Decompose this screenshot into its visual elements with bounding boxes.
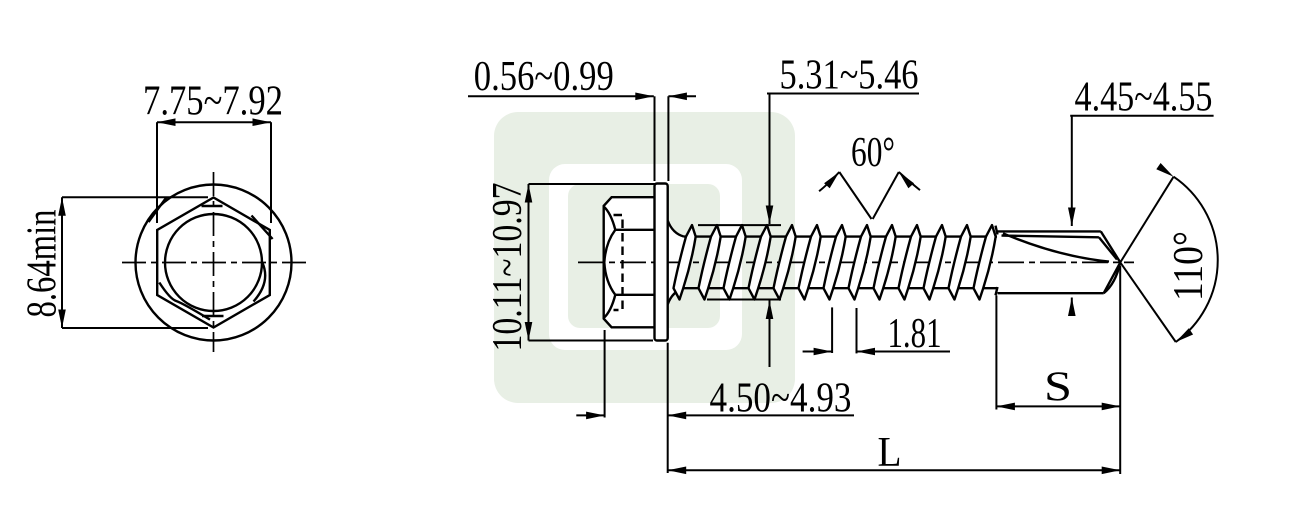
- dim 8.64min dimension line: [61, 197, 63, 328]
- end view: top vertex chamfer line: [202, 205, 223, 207]
- svg-text:10.11~10.97: 10.11~10.97: [485, 183, 531, 352]
- dim 60deg right arc hook: [899, 172, 920, 190]
- svg-text:8.64min: 8.64min: [20, 210, 66, 318]
- head side outline: [604, 197, 655, 327]
- svg-text:60°: 60°: [851, 130, 895, 176]
- head front facet arc lower: [604, 262, 615, 294]
- thread runout bottom: [996, 287, 998, 295]
- dim 7.75~7.92 dimension line: [157, 121, 271, 123]
- dim 110deg legs: [1120, 177, 1173, 263]
- major dia tangent line top: [698, 224, 781, 226]
- thread blades: [674, 225, 696, 299]
- dim 5.31~5.46 underline + leader: [767, 93, 919, 95]
- indent hidden outline (dashed): [614, 215, 623, 310]
- dim 7.75~7.92 extension line right: [270, 122, 272, 223]
- end view: hexagon: [157, 198, 270, 328]
- dim 4.50~4.93 right outside arrow + underline: [668, 414, 854, 416]
- watermark logo: pale green rounded square: [494, 112, 795, 403]
- shared extension line (flange face): [667, 343, 669, 473]
- svg-text:0.56~0.99: 0.56~0.99: [474, 54, 614, 100]
- dim 1.81 extension lines: [831, 307, 833, 353]
- point cone lower edge: [1104, 262, 1121, 293]
- dim 60deg right flank leg: [873, 172, 899, 219]
- dim 10.11~10.97 dimension line: [528, 184, 530, 341]
- head corner chamfer curve bottom: [604, 295, 616, 318]
- pilot top edge: [997, 230, 1101, 232]
- svg-text:S: S: [1044, 365, 1072, 411]
- head corner chamfer curve top: [604, 207, 616, 230]
- head facet line lower: [615, 294, 654, 296]
- end view: centerline horizontal: [122, 262, 306, 264]
- dim 10.11~10.97 extension lines: [529, 183, 656, 185]
- neck fillet bottom: [668, 288, 684, 304]
- dim 0.56~0.99 extension lines: [654, 96, 656, 181]
- thread runout top: [996, 226, 998, 235]
- end view: inner indent circle: [165, 214, 262, 311]
- end view: chamfer arc upper-left: [149, 197, 167, 222]
- point lower flute curve: [1104, 262, 1121, 293]
- washer flange: [655, 184, 668, 341]
- head front facet arc upper: [604, 230, 615, 263]
- head facet line upper: [615, 229, 654, 231]
- end view: chamfer arc upper-right: [252, 216, 273, 240]
- point cone upper inner edge: [1099, 237, 1117, 259]
- svg-text:110°: 110°: [1166, 231, 1212, 301]
- major dia tangent line bottom: [707, 299, 781, 301]
- dim 1.81 left arrow: [803, 351, 833, 353]
- dim 8.64min extension line top: [62, 196, 208, 198]
- white fill: head silhouette: [604, 197, 655, 327]
- dim 0.56~0.99 right arrow: [668, 95, 696, 97]
- thread root line top: [684, 235, 997, 237]
- dim 7.75~7.92 extension line left: [156, 122, 158, 223]
- dim 0.56~0.99 dimension line w/ left arrow: [468, 95, 654, 97]
- side view: centerline: [578, 261, 1134, 263]
- dim L dimension line: [668, 469, 1120, 471]
- watermark logo: white ring frame: [549, 164, 742, 350]
- end view: chamfer arc lower-right: [254, 263, 266, 302]
- svg-text:7.75~7.92: 7.75~7.92: [143, 79, 283, 125]
- dim 5.31~5.46 lower leader: [769, 301, 771, 368]
- end view: outer washer circle: [136, 185, 292, 341]
- svg-text:4.45~4.55: 4.45~4.55: [1075, 75, 1213, 121]
- dim 4.45~4.55 underline + leader: [1070, 115, 1213, 117]
- pilot bottom edge: [998, 292, 1104, 294]
- end view: centerline vertical: [213, 172, 215, 352]
- neck fillet top: [668, 221, 684, 237]
- dim 1.81 right arrow + underline: [857, 351, 951, 353]
- dim S dimension line: [996, 405, 1120, 407]
- dim 60deg left arc hook: [819, 172, 839, 191]
- thread root line bottom: [684, 287, 998, 289]
- point cone upper edge: [1101, 231, 1121, 262]
- end view: chamfer arc lower-left: [159, 283, 210, 320]
- white fill: shank silhouette: [668, 219, 686, 306]
- dim S extension lines: [995, 296, 997, 410]
- dim 4.50~4.93 left outside arrow: [576, 414, 604, 416]
- dim 4.50~4.93 extension line left: [604, 330, 606, 418]
- dim 8.64min extension line bottom: [62, 327, 208, 329]
- svg-text:L: L: [878, 430, 902, 476]
- svg-text:5.31~5.46: 5.31~5.46: [780, 53, 919, 99]
- flute sweep curve: [1003, 233, 1109, 261]
- dim 60deg left flank leg: [839, 172, 871, 219]
- dim 4.45~4.55 lower arrow: [1071, 298, 1073, 316]
- end view: bottom vertex chamfer line: [202, 315, 224, 317]
- svg-text:1.81: 1.81: [888, 311, 942, 357]
- dim 110deg arc: [1174, 177, 1218, 342]
- pilot margin line (inner top): [1002, 236, 1099, 238]
